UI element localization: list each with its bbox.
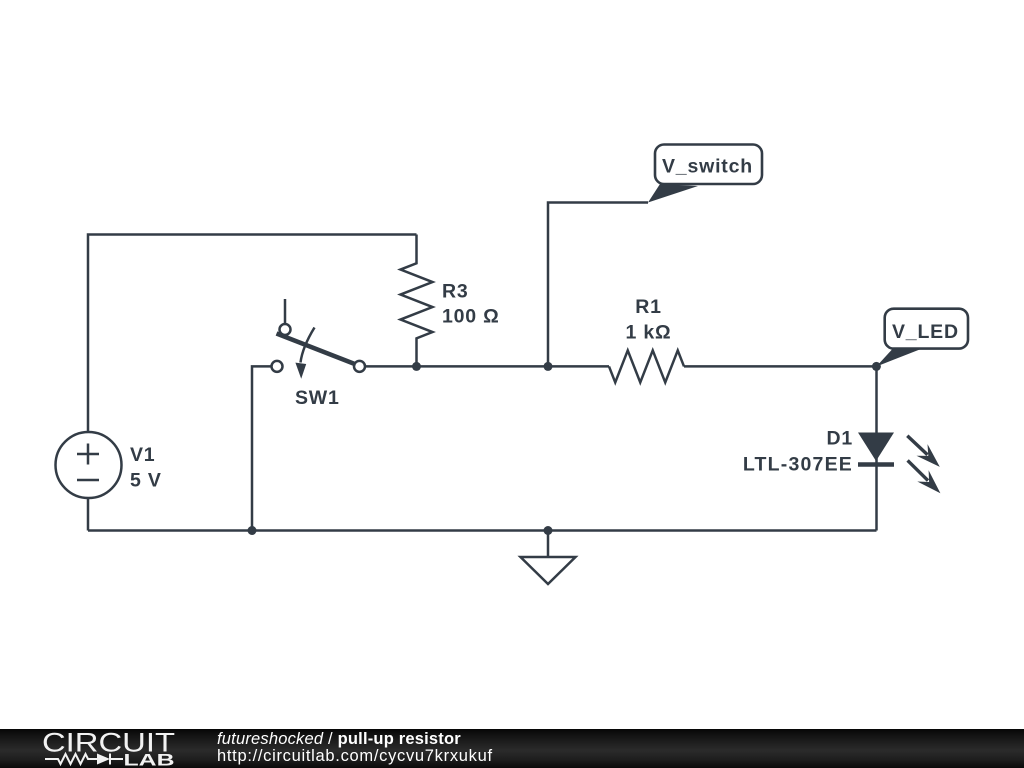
LED D1 anode triangle [858, 433, 894, 462]
svg-text:V1: V1 [130, 444, 155, 466]
junction dot V_LED node [872, 362, 881, 371]
switch SW1 top terminal circle [280, 324, 291, 335]
junction dot SW1 leg / bottom rail [248, 526, 257, 535]
junction dot V_switch tap [544, 362, 553, 371]
footer text [217, 731, 493, 766]
switch SW1 right terminal circle [354, 361, 365, 372]
svg-text:D1: D1 [826, 428, 853, 450]
net flag V_switch [648, 145, 762, 203]
svg-text:5 V: 5 V [130, 469, 162, 491]
svg-text:LAB: LAB [124, 751, 175, 768]
wire V_switch tap [548, 203, 648, 367]
svg-text:100 Ω: 100 Ω [442, 306, 500, 328]
label V1 value [130, 444, 162, 491]
switch SW1 lever [277, 334, 357, 365]
wire R1 to LED node [684, 365, 877, 368]
voltage source V1 [56, 432, 122, 498]
resistor R3 [401, 235, 433, 367]
svg-text:SW1: SW1 [295, 387, 340, 409]
footer bar [0, 729, 1024, 768]
junction dot ground / bottom rail [544, 526, 553, 535]
wire SW1 left leg [252, 366, 272, 530]
svg-text:V_switch: V_switch [662, 156, 753, 178]
CircuitLab logo [0, 729, 200, 768]
label R3 value [442, 281, 500, 328]
wire top rail and left rail [88, 235, 417, 433]
V1 plus sign [77, 444, 99, 465]
V1 minus sign [77, 479, 99, 482]
svg-text:R3: R3 [442, 281, 469, 303]
resistor R1 [609, 350, 684, 382]
svg-text:1 kΩ: 1 kΩ [626, 322, 672, 344]
wire LED branch [875, 366, 878, 530]
wire V1 bottom lead [87, 498, 90, 531]
svg-text:R1: R1 [635, 296, 662, 318]
wire bottom rail [88, 529, 877, 532]
switch SW1 actuation arc [301, 328, 315, 363]
LED emission arrow 2 [908, 460, 941, 493]
ground symbol [521, 531, 576, 585]
LED emission arrow 1 [907, 436, 940, 467]
switch SW1 arrowhead [295, 363, 306, 379]
wire SW1 top stub [284, 299, 287, 324]
net flag V_LED [876, 309, 968, 367]
label D1 value [743, 428, 853, 476]
junction dot R3/wire [412, 362, 421, 371]
LED D1 cathode bar [858, 462, 894, 467]
svg-text:V_LED: V_LED [892, 321, 959, 343]
wire SW1 to R1 [365, 365, 609, 368]
label R1 value [626, 296, 672, 344]
svg-text:LTL-307EE: LTL-307EE [743, 453, 853, 475]
switch SW1 left terminal circle [272, 361, 283, 372]
